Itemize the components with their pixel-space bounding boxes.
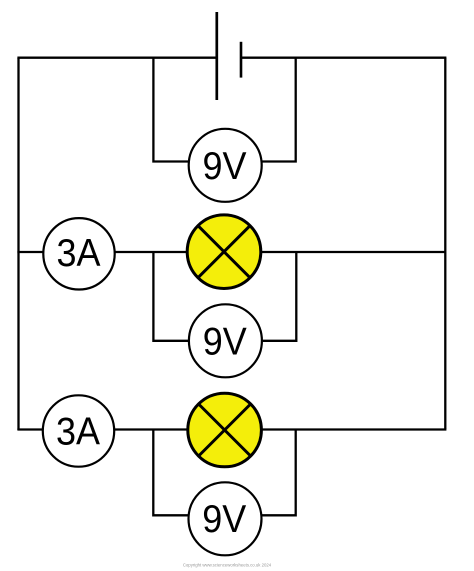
voltmeter V3 (9V across lamp L2): [189, 482, 262, 555]
wire: lamp L1 voltmeter loop right: [263, 252, 297, 341]
wire: battery voltmeter loop left: [153, 58, 188, 162]
wire: lamp L1 voltmeter loop left: [153, 252, 188, 341]
wire: row 3 between ammeter A2 and lamp L2: [115, 428, 187, 430]
voltmeter V1 (9V across battery): [189, 129, 262, 202]
svg-text:9V: 9V: [203, 321, 247, 364]
wire: row 2 from lamp L1 to right rail: [261, 251, 445, 253]
lamp L2: [188, 393, 262, 467]
wire: left vertical (outer loop): [17, 58, 19, 430]
wire: lamp L2 voltmeter loop left: [153, 430, 189, 516]
wire: battery voltmeter loop right: [262, 58, 296, 162]
svg-text:3A: 3A: [56, 410, 100, 453]
wire: top, right of battery: [241, 57, 446, 59]
wire: lamp L2 voltmeter loop right: [262, 430, 296, 516]
wire: row 3 from lamp L2 to right rail: [262, 428, 447, 430]
svg-text:3A: 3A: [57, 232, 101, 275]
svg-text:9V: 9V: [202, 498, 246, 541]
ammeter A2 (3A): [43, 395, 114, 466]
battery BT1: [217, 12, 241, 100]
wire: row 2 from left rail to ammeter A1: [17, 251, 43, 253]
lamp L1: [187, 215, 261, 289]
wire: right vertical (outer loop): [444, 58, 446, 430]
svg-text:9V: 9V: [203, 145, 247, 188]
voltmeter V2 (9V across lamp L1): [189, 304, 262, 377]
wire: row 2 between ammeter A1 and lamp L1: [116, 251, 188, 253]
wire: top, left of battery: [17, 57, 216, 59]
wire: row 3 from left rail to ammeter A2: [17, 428, 43, 430]
svg-text:Copyright www.scienceworksheet: Copyright www.scienceworksheets.co.uk 20…: [183, 563, 272, 568]
ammeter A1 (3A): [43, 218, 114, 289]
